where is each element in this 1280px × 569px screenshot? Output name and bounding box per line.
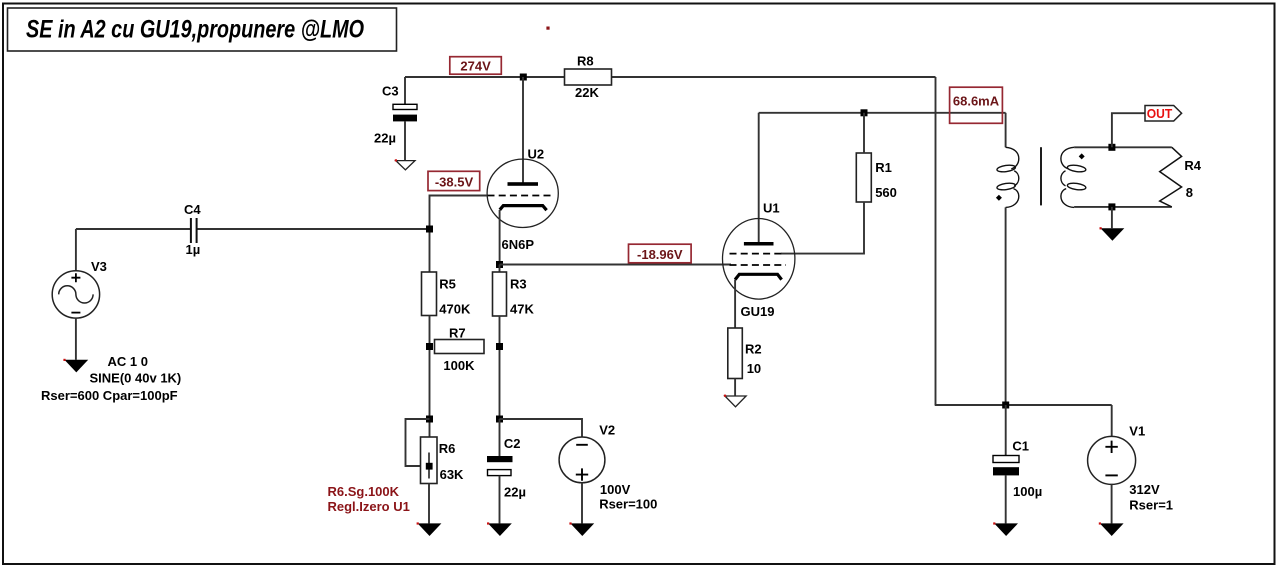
svg-text:Rser=600 Cpar=100pF: Rser=600 Cpar=100pF xyxy=(41,388,178,403)
port OUT flag xyxy=(1145,106,1182,122)
junction C4 / grid leak xyxy=(426,226,433,233)
wire C3 bottom lead xyxy=(404,121,406,160)
svg-text:8: 8 xyxy=(1186,185,1193,200)
svg-text:Rser=100: Rser=100 xyxy=(599,497,657,512)
svg-text:22µ: 22µ xyxy=(374,131,396,146)
tube U2 6N6P xyxy=(487,147,558,253)
wire OUT stub xyxy=(1112,113,1145,147)
svg-text:R1: R1 xyxy=(875,160,892,175)
resistor R1 xyxy=(856,153,897,202)
svg-text:47K: 47K xyxy=(510,302,534,317)
svg-text:R3: R3 xyxy=(510,277,527,292)
resistor R5 xyxy=(422,272,471,317)
ground (hollow) under C3 xyxy=(395,159,415,170)
wire V1 top lead xyxy=(1111,405,1113,436)
svg-text:C2: C2 xyxy=(504,436,521,451)
wire C1 top lead xyxy=(1005,405,1007,456)
svg-text:Regl.Izero U1: Regl.Izero U1 xyxy=(328,499,410,514)
svg-text:C4: C4 xyxy=(184,202,201,217)
wire C2 bottom lead xyxy=(499,476,501,524)
ground under V1 xyxy=(1099,522,1124,536)
svg-text:100K: 100K xyxy=(443,358,475,373)
wire R2 bottom lead xyxy=(734,379,736,396)
wire primary top lead xyxy=(1005,113,1007,148)
svg-text:470K: 470K xyxy=(439,302,471,317)
wire primary bottom lead xyxy=(1005,207,1007,405)
capacitor C1 xyxy=(993,438,1042,499)
wire bottom supply rail xyxy=(935,404,1112,406)
wire V3 bottom lead xyxy=(75,318,77,360)
wire C2 top lead xyxy=(499,419,501,456)
svg-text:C1: C1 xyxy=(1012,438,1029,453)
wire C1 bottom lead xyxy=(1005,475,1007,523)
svg-text:OUT: OUT xyxy=(1147,106,1173,121)
wire secondary bottom xyxy=(1074,206,1172,208)
ground under R6 xyxy=(417,522,442,536)
wire V3 top lead xyxy=(75,229,77,271)
wire R3 to C2 vertical xyxy=(499,316,501,419)
source V3 xyxy=(52,259,107,318)
svg-text:AC 1 0: AC 1 0 xyxy=(108,354,148,369)
node -38.5V label xyxy=(428,171,480,190)
wire R1 top lead xyxy=(863,113,865,153)
wire U1 anode rail xyxy=(759,112,1006,114)
red annotation R6 xyxy=(328,484,410,514)
wire input rail C4 xyxy=(76,228,430,230)
svg-text:312V: 312V xyxy=(1129,482,1160,497)
wire secondary ground lead xyxy=(1111,207,1113,228)
resistor R7 xyxy=(435,326,485,374)
wire R5 to R6 vertical xyxy=(429,316,431,438)
inductor secondary winding xyxy=(1061,147,1086,207)
junction C2 top xyxy=(496,416,503,423)
svg-text:6N6P: 6N6P xyxy=(502,237,535,252)
wire U2 anode lead xyxy=(522,77,524,183)
wire U2 grid to left xyxy=(430,196,488,273)
svg-text:V2: V2 xyxy=(599,423,615,438)
inductor primary winding xyxy=(997,147,1019,207)
wire U1 cathode lead xyxy=(734,280,736,328)
V3 annotation text xyxy=(41,354,181,403)
resistor R2 xyxy=(728,328,762,379)
wire U2 cathode lead xyxy=(499,210,501,265)
svg-text:R2: R2 xyxy=(745,342,762,357)
wire R6 bottom lead xyxy=(428,484,430,524)
node 274V label xyxy=(450,57,502,74)
ground (hollow) under R2 xyxy=(724,395,746,407)
svg-text:C3: C3 xyxy=(382,84,399,99)
primary phase diamond xyxy=(996,195,1002,201)
svg-text:274V: 274V xyxy=(460,58,491,73)
wire C3 top lead xyxy=(404,77,406,104)
junction top rail / U2 anode xyxy=(520,74,527,81)
svg-text:R5: R5 xyxy=(439,277,456,292)
svg-text:GU19: GU19 xyxy=(741,304,775,319)
node -18.96V label xyxy=(629,244,692,263)
resistor R6 potentiometer xyxy=(421,437,465,484)
wire V1 bottom lead xyxy=(1111,484,1113,523)
ground under C2 xyxy=(487,522,512,536)
resistor R4 zigzag xyxy=(1160,147,1202,207)
wire R1 bottom to U1 screen grid xyxy=(781,202,864,254)
svg-text:100V: 100V xyxy=(600,482,631,497)
resistor R8 xyxy=(565,54,612,101)
wire V2 bottom lead xyxy=(581,483,583,524)
resistor R3 xyxy=(493,272,535,317)
junction R1 top xyxy=(861,109,868,116)
svg-text:-18.96V: -18.96V xyxy=(637,247,683,262)
capacitor C3 xyxy=(374,84,417,146)
source V2 xyxy=(559,423,657,512)
tube U1 GU19 xyxy=(723,201,795,319)
svg-text:68.6mA: 68.6mA xyxy=(953,94,1000,109)
wire -18.96V net xyxy=(500,264,732,266)
svg-text:V3: V3 xyxy=(91,259,107,274)
svg-text:R6: R6 xyxy=(439,441,456,456)
ground under V2 xyxy=(569,522,594,536)
wire R3 top lead xyxy=(499,265,501,273)
junction R6 top xyxy=(426,416,433,423)
capacitor C2 xyxy=(487,436,526,500)
ground under secondary xyxy=(1100,227,1125,241)
transformer core xyxy=(1040,147,1042,205)
svg-text:63K: 63K xyxy=(440,467,464,482)
svg-text:22K: 22K xyxy=(575,85,599,100)
title box xyxy=(8,8,397,51)
wire B+ top rail xyxy=(405,76,936,78)
svg-text:22µ: 22µ xyxy=(504,485,526,500)
svg-text:R6.Sg.100K: R6.Sg.100K xyxy=(328,484,400,499)
wire U1 anode lead xyxy=(758,113,760,243)
svg-text:560: 560 xyxy=(875,185,897,200)
junction C1 / bottom rail xyxy=(1002,402,1009,409)
wire secondary top xyxy=(1074,146,1172,148)
svg-text:U2: U2 xyxy=(528,147,545,162)
svg-text:Rser=1: Rser=1 xyxy=(1129,497,1173,512)
junction secondary top xyxy=(1108,144,1115,151)
secondary phase diamond xyxy=(1079,153,1085,159)
junction R7 right xyxy=(496,343,503,350)
svg-text:1µ: 1µ xyxy=(186,242,201,257)
junction R7 left xyxy=(426,343,433,350)
svg-text:U1: U1 xyxy=(763,201,780,216)
svg-text:-38.5V: -38.5V xyxy=(435,174,474,189)
svg-text:V1: V1 xyxy=(1129,424,1145,439)
wire R6 wiper loop xyxy=(406,419,430,466)
wire B+ right vertical xyxy=(935,77,937,405)
svg-text:10: 10 xyxy=(747,361,761,376)
wire V2 top lead xyxy=(500,419,583,437)
svg-text:SINE(0 40v 1K): SINE(0 40v 1K) xyxy=(90,370,182,385)
node 68.6mA label xyxy=(950,87,1003,123)
ground under V3 xyxy=(63,359,88,373)
svg-text:100µ: 100µ xyxy=(1013,484,1042,499)
source V1 xyxy=(1088,424,1173,513)
red marker dot xyxy=(546,27,549,30)
junction cathode / R3 xyxy=(496,261,503,268)
junction secondary bottom xyxy=(1108,203,1115,210)
svg-text:R7: R7 xyxy=(449,326,466,341)
ground under C1 xyxy=(993,522,1018,536)
svg-text:R8: R8 xyxy=(577,54,594,69)
capacitor C4 xyxy=(184,202,201,257)
svg-text:R4: R4 xyxy=(1184,158,1201,173)
svg-text:SE in A2 cu GU19,propunere @LM: SE in A2 cu GU19,propunere @LMO xyxy=(26,16,364,44)
